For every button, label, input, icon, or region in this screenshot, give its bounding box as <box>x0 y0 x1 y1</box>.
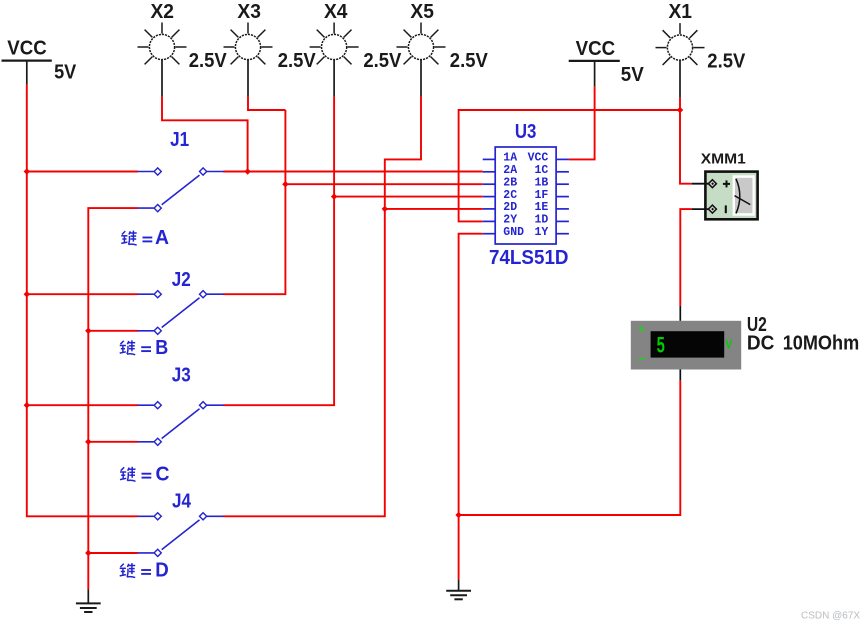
svg-text:X2: X2 <box>151 1 175 23</box>
lamp X5 <box>397 1 489 97</box>
U2 plus sign <box>639 326 645 332</box>
svg-text:5: 5 <box>657 333 665 358</box>
svg-text:2A: 2A <box>503 164 517 177</box>
XMM1 minus sign <box>725 205 727 213</box>
wire 2B line <box>285 183 482 185</box>
XMM1 needle <box>735 196 751 205</box>
svg-text:V: V <box>725 336 732 351</box>
wire J4 output up to 2D and X5 <box>223 96 421 516</box>
wire XMM1 minus down to U2 top <box>680 209 691 306</box>
svg-text:74LS51D: 74LS51D <box>489 247 569 269</box>
switch J3 <box>138 365 224 446</box>
wire J2 output up to X3 and 2B <box>223 110 285 294</box>
wire J3 input <box>27 404 138 406</box>
U3 pin stubs right <box>556 159 569 233</box>
svg-text:2C: 2C <box>503 189 517 202</box>
svg-text:10MOhm: 10MOhm <box>783 333 860 355</box>
switch J1 <box>138 129 224 212</box>
node X1/2Y junction <box>677 107 683 113</box>
U3 pin stubs left <box>483 159 496 233</box>
svg-text:1E: 1E <box>534 201 548 214</box>
wire J2 input <box>27 293 138 295</box>
svg-text:J1: J1 <box>170 129 189 151</box>
label key = B <box>120 337 169 359</box>
svg-text:X3: X3 <box>237 1 261 23</box>
node X3/2B junction <box>282 181 288 187</box>
wire 2Y output to X1 and XMM1 plus <box>459 110 692 221</box>
svg-text:GND: GND <box>503 226 524 239</box>
node U2/GND junction <box>455 512 461 518</box>
XMM1 plus terminal <box>708 180 716 188</box>
node J2 input junction <box>24 291 30 297</box>
wire lamp X1 drop <box>679 98 681 110</box>
wire J1 output to U3 pin 2A <box>223 171 482 173</box>
svg-text:5V: 5V <box>621 64 645 86</box>
IC U3 74LS51D body <box>495 147 556 244</box>
svg-text:2Y: 2Y <box>503 214 517 227</box>
label key = C <box>120 463 170 485</box>
wire lamp X2 drop to 2A net <box>162 96 248 171</box>
wire 2C line <box>334 196 483 198</box>
svg-text:5V: 5V <box>54 62 77 84</box>
svg-text:J3: J3 <box>172 365 191 387</box>
U2 display <box>651 331 725 357</box>
svg-text:VCC: VCC <box>7 37 47 59</box>
node J4 bottom junction <box>85 550 91 556</box>
svg-text:1D: 1D <box>534 214 548 227</box>
XMM1 plus sign <box>723 180 730 187</box>
svg-text:CSDN @67X: CSDN @67X <box>801 611 860 622</box>
label key = D <box>120 560 169 582</box>
ground (right) <box>446 580 471 600</box>
svg-text:XMM1: XMM1 <box>701 152 746 168</box>
wire VCC1 rail down to J4 input <box>27 84 138 516</box>
svg-text:VCC: VCC <box>528 152 549 165</box>
node J3 input junction <box>24 402 30 408</box>
wire 2D line <box>385 208 483 210</box>
svg-text:1C: 1C <box>534 164 548 177</box>
wire J2 bottom throw <box>88 330 137 332</box>
U2 bottom pin stub <box>679 370 681 381</box>
svg-text:VCC: VCC <box>576 38 616 60</box>
wire J3 bottom throw <box>88 441 137 443</box>
U2 minus sign <box>639 358 645 360</box>
svg-text:D: D <box>155 560 169 582</box>
node X5/2D junction <box>382 206 388 212</box>
svg-text:U3: U3 <box>515 121 537 143</box>
XMM1 display <box>735 178 753 213</box>
svg-text:J4: J4 <box>172 491 192 513</box>
node X4/2C junction <box>331 193 337 199</box>
svg-text:2.5V: 2.5V <box>707 50 746 72</box>
svg-text:1Y: 1Y <box>534 226 548 239</box>
wire J4 bottom throw <box>88 552 137 554</box>
svg-text:B: B <box>155 337 168 359</box>
lamp X3 <box>224 1 317 97</box>
svg-text:C: C <box>156 463 170 485</box>
node J1 input junction <box>24 168 30 174</box>
svg-text:DC: DC <box>747 333 775 355</box>
wire ground rail from J1 bottom throw <box>88 208 137 589</box>
XMM1 minus terminal <box>708 205 716 213</box>
ground (left) <box>76 590 101 613</box>
switch J4 <box>138 491 224 557</box>
lamp X2 <box>138 1 228 97</box>
wire J1 input <box>27 171 138 173</box>
svg-text:1F: 1F <box>534 189 548 202</box>
XMM1 body <box>705 172 757 220</box>
U2 top pin stub <box>679 306 681 321</box>
wire lamp X4 drop to J3 output <box>223 96 334 405</box>
node J2 bottom junction <box>85 328 91 334</box>
svg-text:2.5V: 2.5V <box>189 50 228 72</box>
lamp X4 <box>310 1 402 97</box>
svg-text:X5: X5 <box>410 1 434 23</box>
power VCC (left source) <box>2 37 77 84</box>
switch J2 <box>138 269 224 334</box>
XMM1 needle arc <box>736 179 740 214</box>
svg-text:2.5V: 2.5V <box>278 50 317 72</box>
svg-text:1B: 1B <box>534 177 548 190</box>
XMM1 pin stubs <box>692 183 709 185</box>
node X2/2A junction <box>244 168 250 174</box>
wire U2 bottom to ground net <box>459 380 681 515</box>
U3 pin names <box>503 152 548 239</box>
wire VCC2 down to U3 VCC pin <box>569 86 595 159</box>
svg-text:2B: 2B <box>503 177 517 190</box>
svg-text:2.5V: 2.5V <box>450 50 489 72</box>
svg-text:2D: 2D <box>503 201 517 214</box>
node J3 bottom junction <box>85 439 91 445</box>
wire lamp X3 drop <box>248 96 285 110</box>
wire U3 GND pin down to ground <box>459 234 483 580</box>
lamp X1 <box>656 1 746 98</box>
label key = A <box>121 227 169 249</box>
svg-text:J2: J2 <box>172 269 191 291</box>
U2 body <box>631 321 741 370</box>
svg-text:2.5V: 2.5V <box>363 50 402 72</box>
svg-text:X1: X1 <box>669 1 693 23</box>
svg-text:1A: 1A <box>503 152 517 165</box>
svg-text:A: A <box>155 227 169 249</box>
power VCC (right source near U3) <box>569 38 645 86</box>
svg-text:X4: X4 <box>324 1 348 23</box>
XMM1 display frame <box>733 175 755 215</box>
